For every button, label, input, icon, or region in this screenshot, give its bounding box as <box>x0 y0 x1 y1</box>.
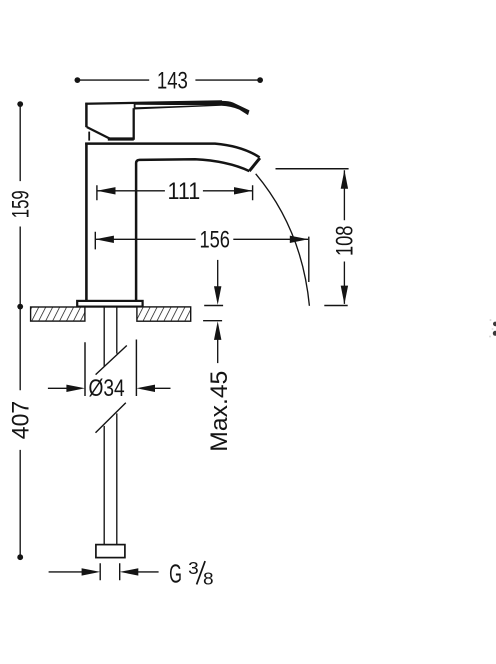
dimension 159 end dots <box>17 101 23 107</box>
svg-text:407: 407 <box>8 401 35 439</box>
dimension 156 arrowheads <box>95 236 114 243</box>
dimension 108 top reference line <box>276 168 349 170</box>
dimension 108 arrowheads <box>341 170 348 189</box>
dimension 143 line <box>77 79 260 81</box>
dimension 156 ticks <box>95 232 308 282</box>
pipe end fitting <box>96 545 125 558</box>
faucet lever blade fill <box>134 101 250 115</box>
pipe break slash lower <box>96 403 126 433</box>
base plate <box>77 301 142 307</box>
dimension 111 ticks <box>97 185 253 200</box>
svg-text:156: 156 <box>199 227 230 254</box>
svg-text:143: 143 <box>157 67 188 94</box>
svg-text:108: 108 <box>332 226 359 256</box>
svg-text:159: 159 <box>8 190 35 218</box>
dimension 407 line <box>19 307 21 558</box>
svg-text:G: G <box>169 560 182 588</box>
dimension 156 line <box>95 238 308 240</box>
dimension Max.45 ticks <box>203 306 223 321</box>
dimension 407 end dot <box>17 554 23 560</box>
dimension G3/8 arrows <box>49 571 82 573</box>
svg-text:Ø34: Ø34 <box>89 375 125 402</box>
faucet lever grip left edge <box>85 103 88 128</box>
pipe break slash upper <box>96 346 127 375</box>
dimension 111 arrowheads <box>97 187 116 194</box>
dimension Max.45 lower arrow <box>214 321 221 340</box>
counter deck right hatched section <box>137 307 191 321</box>
faucet lever bold bottom bar <box>108 137 134 140</box>
faucet spout underside and riser right edge <box>136 159 249 301</box>
dimension 108 line <box>343 170 345 304</box>
faucet lever top edge <box>85 101 222 103</box>
faucet spout outlet face <box>249 158 260 171</box>
dimension 111 line <box>97 190 253 192</box>
partial glyph at right edge <box>493 322 496 327</box>
dimension 108 bottom reference line <box>324 305 347 307</box>
dimension O34 arrows <box>48 387 67 389</box>
faucet body left edge <box>85 143 88 301</box>
svg-text:Max.45: Max.45 <box>206 371 233 452</box>
faucet cartridge neck line <box>88 132 90 141</box>
svg-text:111: 111 <box>168 178 201 205</box>
dimension Max.45 upper arrow <box>217 260 219 287</box>
faucet lever grip front diagonal <box>87 127 110 139</box>
dimension G3/8 ticks <box>100 563 120 580</box>
dimension O34 extension lines <box>85 340 136 397</box>
svg-text:3: 3 <box>188 558 199 578</box>
supply pipe lines <box>104 307 117 545</box>
faucet body top edge and spout top curve <box>85 144 259 158</box>
faucet lever inner white wedge <box>136 105 207 108</box>
dimension 159 line <box>19 104 21 307</box>
water stream arc <box>256 174 310 306</box>
dimension 143 end dots <box>75 77 81 83</box>
svg-text:8: 8 <box>203 568 214 588</box>
counter deck left hatched section <box>31 307 85 321</box>
faucet lever back vertical <box>133 108 135 140</box>
